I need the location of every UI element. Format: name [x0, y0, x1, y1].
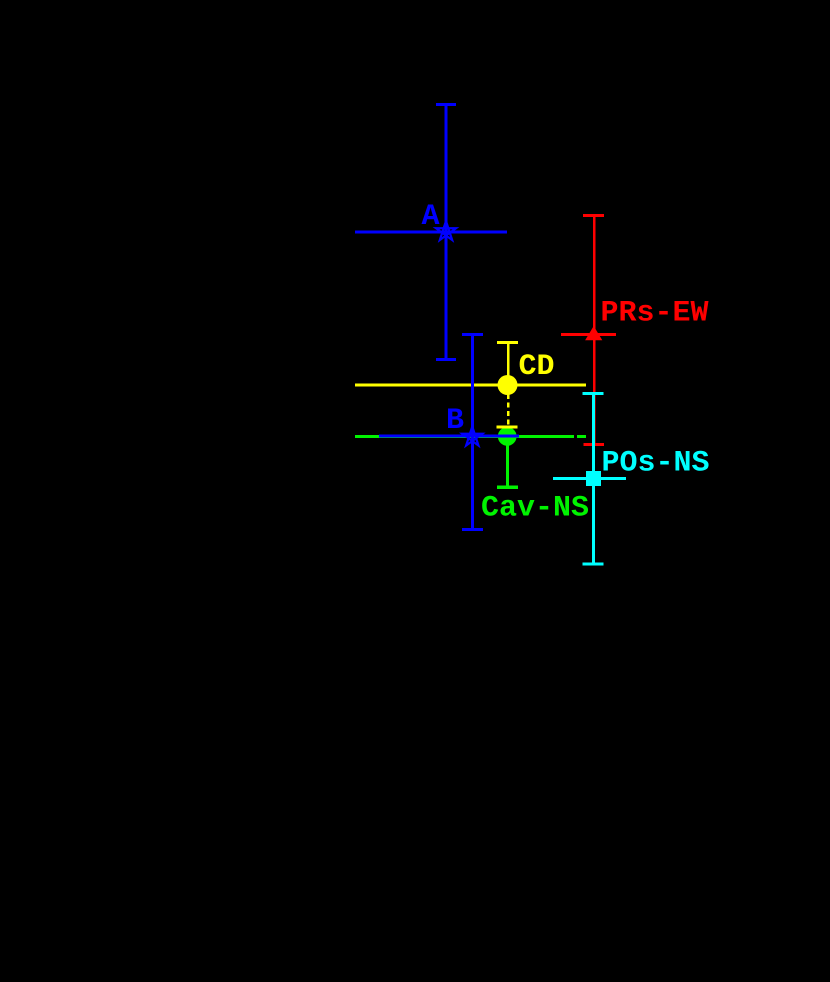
svg-text:Cav-NS: Cav-NS [481, 492, 589, 526]
Cav-NS horizontal error bar right segment (green) [577, 435, 586, 438]
POs-NS upper cap (cyan) [583, 392, 604, 395]
A vertical error bar (blue) [445, 103, 448, 361]
B horizontal error bar (blue) [379, 434, 519, 437]
POs-NS lower cap (cyan) [583, 562, 604, 565]
CD upper vertical error bar (yellow) [507, 341, 510, 377]
B upper cap (blue) [462, 333, 483, 336]
A star marker (blue) [436, 221, 456, 240]
A horizontal error bar (blue) [355, 231, 507, 234]
Cav-NS vertical error bar (green) [506, 436, 509, 487]
A upper cap (blue) [436, 103, 456, 106]
PRs-EW triangle marker (red) [585, 326, 602, 340]
svg-text:B: B [446, 404, 464, 438]
PRs-EW upper cap (red) [583, 214, 604, 217]
PRs-EW lower cap (red) [583, 443, 604, 446]
CD circle marker (yellow) [498, 375, 518, 395]
CD horizontal error bar (yellow) [355, 384, 586, 387]
POs-NS horizontal error bar (cyan) [553, 477, 626, 480]
PRs-EW horizontal error bar (red) [561, 333, 616, 336]
B star marker (blue) [462, 427, 482, 446]
CD upper cap (yellow) [497, 341, 518, 344]
B vertical error bar (blue) [471, 333, 474, 531]
svg-text:A: A [422, 200, 440, 234]
POs-NS vertical error bar (cyan) [592, 392, 595, 566]
svg-text:CD: CD [519, 350, 555, 384]
svg-text:POs-NS: POs-NS [602, 446, 710, 480]
CD lower cap (yellow) [496, 425, 517, 428]
POs-NS square marker (cyan) [586, 471, 601, 486]
svg-text:PRs-EW: PRs-EW [601, 296, 709, 330]
CD lower vertical error bar dashed (yellow) [507, 394, 510, 425]
B lower cap (blue) [462, 528, 483, 531]
Cav-NS lower cap (green) [497, 486, 518, 489]
PRs-EW vertical error bar (red) [593, 214, 596, 446]
Cav-NS circle marker (green) [498, 427, 517, 446]
A lower cap (blue) [436, 358, 456, 361]
Cav-NS horizontal error bar left segment (green) [355, 435, 574, 438]
